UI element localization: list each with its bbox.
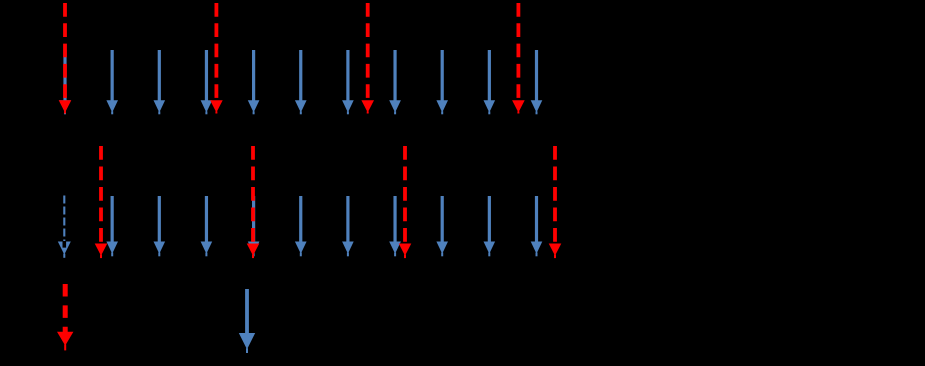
- row1 blue frame arrow B1-11: [531, 50, 543, 114]
- row1 blue frame arrow B1-4: [201, 50, 213, 114]
- row1 blue frame arrow B1-8: [389, 50, 401, 114]
- row2 blue frame arrow B2-10: [531, 196, 543, 256]
- row2 red dashed source arrow R2-2: [247, 146, 260, 258]
- row1 blue frame arrow B1-3: [154, 50, 166, 114]
- row1 blue frame arrow B1-6: [295, 50, 307, 114]
- row1 red dashed source arrow R1-1: [59, 3, 72, 114]
- row2 blue dashed arrow (skipped frame): [58, 196, 71, 258]
- row2 red dashed source arrow R2-3: [399, 146, 412, 258]
- row2 blue frame arrow B2-9: [484, 196, 496, 256]
- row1 blue frame arrow B1-7: [342, 50, 354, 114]
- row1 red dashed source arrow R1-4: [512, 3, 525, 114]
- row2 red dashed source arrow R2-4: [549, 146, 562, 258]
- row1 blue frame arrow B1-9: [436, 50, 448, 114]
- row2 blue frame arrow B2-1: [106, 196, 118, 256]
- row1 blue frame arrow B1-2: [106, 50, 118, 114]
- legend red dashed arrow: [57, 284, 73, 350]
- legend blue solid arrow: [239, 289, 255, 353]
- row2 blue frame arrow B2-5: [295, 196, 307, 256]
- row1 blue frame arrow B1-10: [484, 50, 496, 114]
- row2 blue frame arrow B2-2: [154, 196, 166, 256]
- row1 red dashed source arrow R1-2: [210, 3, 223, 114]
- row2 blue frame arrow B2-3: [201, 196, 213, 256]
- row2 blue frame arrow B2-6: [342, 196, 354, 256]
- row2 blue frame arrow B2-8: [436, 196, 448, 256]
- row1 red dashed source arrow R1-3: [361, 3, 374, 114]
- row1 blue frame arrow B1-1: [59, 50, 71, 114]
- row2 red dashed source arrow R2-1: [95, 146, 108, 258]
- row2 blue frame arrow B2-4: [248, 196, 260, 256]
- row1 blue frame arrow B1-5: [248, 50, 260, 114]
- row2 blue frame arrow B2-7: [389, 196, 401, 256]
